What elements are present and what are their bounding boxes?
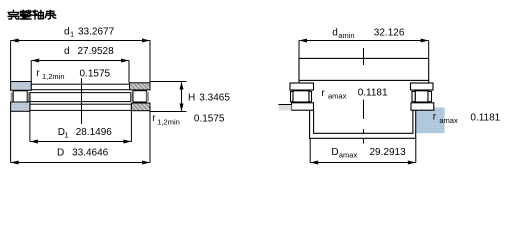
svg-text:amax: amax — [439, 116, 458, 125]
char 完 — [8, 10, 19, 19]
cage bar left outer — [11, 92, 14, 102]
left stack housing washer — [292, 103, 314, 110]
svg-text:amin: amin — [338, 31, 354, 40]
dimension D1 arrow left — [30, 140, 38, 144]
H arrow line — [181, 82, 183, 112]
svg-text:0.1575: 0.1575 — [194, 114, 225, 125]
dimension D1 arrow right — [123, 140, 131, 144]
bearing top washer plate — [31, 84, 129, 90]
dimension d arrow left — [31, 59, 39, 63]
label D 33.4646 — [57, 147, 109, 158]
svg-text:28.1496: 28.1496 — [76, 127, 113, 138]
dimension Damax extension line right — [415, 138, 417, 162]
left gray stub — [279, 105, 292, 111]
dimension d1 line — [11, 40, 150, 42]
svg-text:1,2min: 1,2min — [42, 72, 65, 81]
dimension D extension line left — [10, 111, 12, 162]
svg-text:33.2677: 33.2677 — [78, 26, 115, 37]
right stack housing washer — [411, 103, 434, 110]
left stack roller — [293, 91, 309, 102]
svg-text:H: H — [188, 93, 195, 104]
dimension d1 extension line right — [149, 41, 151, 83]
dimension D1 line — [30, 141, 131, 143]
roller left — [13, 91, 27, 103]
cage plate — [30, 93, 131, 102]
svg-text:1: 1 — [65, 131, 69, 140]
axis tick top — [363, 48, 365, 65]
bearing washer block top-right (hatched) — [130, 83, 151, 90]
axis tick middle — [363, 100, 365, 120]
ra fillet block blue (bottom right) — [416, 107, 445, 133]
dimension D arrow left — [11, 161, 19, 165]
shaft block — [299, 58, 429, 80]
svg-text:0.1181: 0.1181 — [470, 113, 500, 124]
bearing bottom washer plate — [30, 104, 131, 110]
H arrow down — [180, 104, 184, 112]
dimension Damax arrow left — [310, 161, 318, 165]
dimension D1 extension line left — [29, 111, 31, 141]
dimension d1 arrow left — [11, 39, 19, 43]
svg-text:1: 1 — [70, 30, 74, 39]
label Damax 29.2913 — [331, 147, 406, 159]
title 完整轴承 (drawn strokes) — [8, 10, 56, 19]
roller right — [133, 91, 146, 102]
label d1 33.2677 — [64, 26, 115, 38]
right stack cage bar inner — [412, 91, 415, 101]
label r1,2min 0.1575 row — [36, 68, 110, 81]
svg-text:d: d — [64, 46, 70, 57]
H reference line bottom — [150, 111, 186, 113]
label ramax 0.1181 inner — [321, 87, 388, 100]
dimension damin arrow left — [299, 39, 307, 43]
svg-text:d: d — [332, 27, 338, 38]
char 轴 — [33, 10, 44, 19]
dimension d line — [31, 60, 129, 62]
svg-text:0.1181: 0.1181 — [358, 87, 388, 98]
dimension Damax extension line left — [309, 138, 311, 162]
label r1,2min 0.1575 right row — [152, 113, 225, 126]
label H 3.3465 — [188, 93, 230, 104]
char 承 — [45, 11, 56, 20]
label d 27.9528 — [64, 46, 114, 57]
dimension damin line — [299, 40, 429, 42]
bearing housing washer block bottom-left (blue) — [11, 102, 30, 111]
svg-text:33.4646: 33.4646 — [72, 147, 109, 158]
right stack roller — [415, 91, 428, 102]
svg-text:1,2min: 1,2min — [157, 117, 180, 126]
H arrow up — [180, 82, 184, 90]
cage bar left inner — [28, 92, 31, 102]
bearing washer block bottom-right (hatched) — [131, 103, 150, 111]
svg-text:amax: amax — [339, 151, 358, 160]
dimension d arrow right — [121, 59, 129, 63]
housing U section — [310, 110, 416, 138]
right stack cage bar outer — [428, 91, 432, 101]
dimension Damax line — [310, 162, 416, 164]
dimension d1 extension line left — [10, 41, 12, 82]
dimension Damax arrow right — [408, 161, 416, 165]
svg-text:0.1575: 0.1575 — [80, 68, 111, 79]
dimension damin extension line left — [298, 41, 300, 59]
axis tick bottom — [363, 129, 365, 144]
svg-text:d: d — [64, 26, 70, 37]
dimension D line — [11, 162, 150, 164]
dimension D extension line right — [149, 111, 151, 163]
svg-text:29.2913: 29.2913 — [370, 147, 407, 158]
left stack cage bar outer — [291, 91, 294, 101]
label ramax 0.1181 right — [433, 112, 501, 126]
right stack shaft washer — [411, 83, 434, 90]
svg-text:D: D — [57, 147, 64, 158]
char 整 — [21, 10, 32, 19]
axis tick left figure — [81, 78, 83, 124]
dimension damin extension line right — [428, 41, 430, 59]
bearing shaft washer block top-left (blue) — [11, 82, 32, 91]
cage bar right outer — [146, 92, 149, 101]
svg-text:amax: amax — [328, 92, 347, 101]
shaft shoulder edge left — [298, 80, 300, 83]
shaft shoulder edge right — [428, 80, 430, 83]
svg-text:32.126: 32.126 — [374, 27, 405, 38]
dimension d1 arrow right — [142, 39, 150, 43]
dimension d extension line left — [30, 61, 32, 82]
dimension D arrow right — [142, 161, 150, 165]
svg-text:D: D — [331, 147, 338, 158]
svg-text:3.3465: 3.3465 — [199, 93, 230, 104]
dimension D1 extension line right — [130, 111, 132, 142]
left stack cage bar inner — [309, 91, 312, 101]
label D1 28.1496 — [58, 127, 113, 139]
label damin 32.126 — [332, 27, 405, 39]
dimension damin arrow right — [421, 39, 429, 43]
cage bar right inner — [131, 92, 134, 101]
left stack shaft washer — [290, 83, 314, 90]
dimension d extension line right — [128, 61, 130, 83]
svg-text:27.9528: 27.9528 — [78, 46, 115, 57]
H reference line top — [150, 81, 186, 83]
